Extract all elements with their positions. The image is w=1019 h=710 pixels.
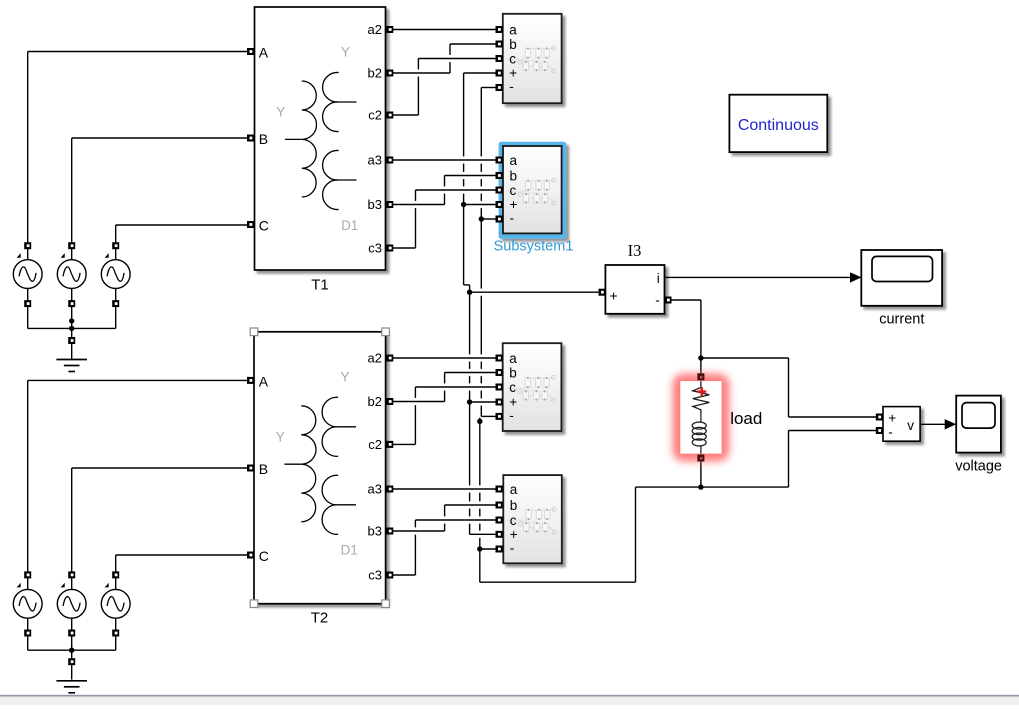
- port source2-top -: [68, 300, 75, 307]
- wire B-phase source2-top vertical: [71, 138, 73, 242]
- port SubC.plus: [496, 399, 503, 406]
- scope voltage: [955, 396, 1002, 475]
- wire voltmeter-plus horizontal: [789, 416, 877, 418]
- svg-text:b: b: [510, 168, 518, 183]
- transformer T2: [254, 332, 386, 604]
- port T2.A: [247, 377, 254, 384]
- wire c2-c lower horizontal: [415, 386, 495, 388]
- source Vs6 (bottom) phase tick: [105, 583, 109, 588]
- port T1.B: [247, 135, 254, 142]
- port T1.a3: [386, 157, 393, 164]
- port load.bottom: [697, 455, 704, 462]
- wire minus-bus to Subsystem1.minus: [481, 218, 495, 220]
- svg-text:Y: Y: [276, 429, 285, 444]
- wire T1.b2 horizontal: [393, 72, 450, 74]
- svg-text:b3: b3: [368, 524, 382, 539]
- port T1.b2: [386, 70, 393, 77]
- port T1.A: [247, 48, 254, 55]
- wire C-phase source3-bot vertical: [115, 555, 117, 572]
- wire plus-bus to Subsystem1.plus: [464, 204, 496, 206]
- wire T1.c3 horizontal: [393, 247, 416, 249]
- svg-text:Subsystem1: Subsystem1: [494, 239, 574, 255]
- wire node-A branch right: [701, 357, 789, 359]
- wire T2.a3 to SubD.a: [393, 488, 496, 490]
- port source1-top +: [24, 242, 31, 249]
- load resistor: [693, 381, 710, 413]
- source Vs5 (bottom) phase tick: [61, 583, 65, 588]
- wire source2-bot stub: [71, 578, 73, 589]
- wire source1-bot stub: [27, 578, 29, 589]
- ground top: [56, 360, 87, 372]
- svg-text:A: A: [259, 45, 269, 61]
- svg-text:current: current: [879, 312, 924, 328]
- wire minus-bus vertical: [480, 88, 482, 417]
- port SubC.c: [496, 384, 503, 391]
- wire minus extension horizontal: [480, 581, 636, 583]
- svg-text:T1: T1: [311, 277, 329, 294]
- wire B-phase source2-bot vertical: [71, 468, 73, 572]
- wire A-phase source1-bot vertical: [27, 380, 29, 571]
- port ground-top: [68, 337, 75, 344]
- wire b3-b lower horizontal2: [445, 504, 496, 506]
- T2 primary winding: [301, 406, 316, 522]
- powergui Continuous block: [729, 95, 827, 152]
- svg-text:Y: Y: [340, 369, 349, 384]
- svg-text:-: -: [509, 79, 514, 94]
- port source2-top +: [68, 242, 75, 249]
- wire source1-bot to neutral: [27, 618, 29, 650]
- port T1.c2: [386, 112, 393, 119]
- wire c3-c vertical (T1): [415, 190, 417, 248]
- junction minus-bus at SubD: [477, 546, 482, 551]
- port SubD.plus: [496, 531, 503, 538]
- load block (highlighted): [673, 374, 762, 461]
- svg-text:b2: b2: [368, 66, 382, 81]
- port T2.b2: [386, 398, 393, 405]
- port SubA.c: [496, 55, 503, 62]
- T2 secondary winding D1: [322, 475, 338, 534]
- port source3-top +: [112, 242, 119, 249]
- svg-text:+: +: [888, 411, 896, 426]
- port source2-bot +: [68, 571, 75, 578]
- svg-text:-: -: [510, 210, 515, 225]
- port SubC.a: [496, 355, 503, 362]
- wire minus-bus to SubA.minus: [481, 87, 495, 89]
- svg-text:b: b: [509, 37, 517, 52]
- svg-text:voltage: voltage: [955, 458, 1002, 474]
- load polarity +: [697, 387, 706, 396]
- svg-text:I3: I3: [628, 241, 642, 260]
- svg-text:i: i: [657, 271, 660, 286]
- wire b3-b upper horizontal: [445, 175, 496, 177]
- port T1.c3: [386, 245, 393, 252]
- port SubC.b: [496, 369, 503, 376]
- wire b2-b upper horizontal: [450, 43, 496, 45]
- status bar: [0, 695, 1019, 697]
- wire crossover gaps: [414, 55, 483, 538]
- svg-text:a2: a2: [368, 22, 382, 37]
- wire T1.a2 to SubA.a: [393, 29, 496, 31]
- wire ground-bot stem: [71, 665, 73, 679]
- transformer T1: [255, 7, 386, 270]
- port Subsystem1.plus: [496, 201, 503, 208]
- wire I3-minus to load vertical: [700, 300, 702, 373]
- wire I3.minus to node-A: [672, 299, 701, 301]
- port voltmeter.minus: [876, 427, 883, 434]
- svg-text:b: b: [509, 365, 517, 380]
- svg-text:-: -: [510, 540, 515, 555]
- port source1-bot +: [24, 571, 31, 578]
- svg-text:B: B: [259, 461, 268, 477]
- junction neutral-top lower: [69, 326, 74, 331]
- wire T1.a3 to Subsystem1.a: [393, 159, 496, 161]
- wire source3-bot stub: [115, 578, 117, 589]
- T1 secondary winding Y: [323, 72, 339, 131]
- wire b3-b vertical (T2): [444, 505, 446, 531]
- svg-text:b: b: [510, 498, 518, 513]
- svg-text:c3: c3: [368, 241, 382, 256]
- ground bottom: [56, 681, 87, 693]
- wire T2.a2 to SubC.a: [393, 357, 496, 359]
- svg-text:-: -: [509, 408, 514, 423]
- port T2.c2: [386, 441, 393, 448]
- wire T2.b2 horizontal: [393, 401, 445, 403]
- svg-text:+: +: [610, 288, 618, 304]
- wire b3-b vertical (T1): [444, 176, 446, 205]
- port source3-top -: [112, 300, 119, 307]
- port I3.minus: [665, 297, 672, 304]
- port source1-bot -: [24, 630, 31, 637]
- wire minus-bus extension vertical: [479, 418, 481, 583]
- wire c2-c vertical (T1): [417, 59, 419, 116]
- wire source2-bot to ground port: [71, 618, 73, 658]
- port SubA.b: [496, 41, 503, 48]
- wire T2.c3 horizontal: [393, 574, 415, 576]
- svg-text:c: c: [509, 380, 516, 395]
- wire C-phase to T1.C: [116, 224, 247, 226]
- AC voltage source Vs6 (bottom): [101, 583, 130, 618]
- junction neutral-top upper: [69, 318, 74, 323]
- AC voltage source Vs4 (bottom): [13, 583, 42, 618]
- source Vs1 (top) phase tick: [17, 253, 21, 258]
- junction node-B: [698, 484, 703, 489]
- port Subsystem1.minus: [496, 216, 503, 223]
- port T1.b3: [386, 201, 393, 208]
- svg-text:b3: b3: [368, 197, 382, 212]
- wire A-phase to T1.A: [28, 51, 247, 53]
- wire voltmeter output: [920, 423, 946, 425]
- port SubD.c: [496, 517, 503, 524]
- svg-text:a: a: [510, 482, 518, 497]
- svg-text:T2: T2: [311, 610, 329, 627]
- svg-text:Y: Y: [276, 105, 285, 120]
- svg-text:a: a: [509, 351, 517, 366]
- wire source3-top stub: [115, 249, 117, 260]
- svg-text:D1: D1: [341, 218, 358, 233]
- wire minus-bus to SubD.minus: [480, 548, 496, 550]
- wire source2-top to ground port: [71, 288, 73, 337]
- svg-text:c2: c2: [368, 108, 382, 123]
- current measurement I3: [605, 241, 664, 314]
- port T2.a3: [386, 486, 393, 493]
- wire T2.c2 horizontal: [393, 443, 415, 445]
- svg-text:C: C: [259, 548, 269, 564]
- svg-text:Y: Y: [341, 45, 350, 60]
- wire source3-top to neutral: [115, 288, 117, 328]
- wire b2-b lower horizontal: [445, 372, 496, 374]
- wire source1-top to neutral: [27, 288, 29, 328]
- svg-text:a2: a2: [368, 351, 382, 366]
- wire load-bottom vertical: [700, 461, 702, 487]
- wire plus-bus to SubA.plus: [464, 72, 496, 74]
- source Vs2 (top) phase tick: [61, 253, 65, 258]
- arrowhead into current scope: [850, 272, 862, 282]
- wire plus-bus to SubC.plus: [470, 401, 496, 403]
- subsystem Subsystem1 (selected): [494, 142, 574, 255]
- svg-text:c: c: [510, 513, 517, 528]
- T2 selection handles: [250, 328, 389, 608]
- svg-text:D1: D1: [341, 543, 358, 558]
- AC voltage source Vs1 (top): [13, 253, 42, 288]
- subsystem SubA: [503, 14, 562, 103]
- wire b2-b vertical (T1): [449, 44, 451, 73]
- wire plus-bus to SubD.plus: [470, 533, 496, 535]
- wire A-phase source1-top vertical: [27, 52, 29, 243]
- AC voltage source Vs3 (top): [101, 253, 130, 288]
- svg-text:c: c: [509, 51, 516, 66]
- wire C-phase to T2.C: [116, 554, 247, 556]
- subsystem SubC: [503, 343, 562, 431]
- port T2.c3: [386, 572, 393, 579]
- port ground-bot: [68, 658, 75, 665]
- wire node-B branch right: [701, 486, 789, 488]
- wire b2-b vertical (T2): [444, 373, 446, 402]
- port source2-bot -: [68, 630, 75, 637]
- port voltmeter.plus: [876, 414, 883, 421]
- junction minus-bus at Subsystem1: [479, 216, 484, 221]
- port T1.a2: [386, 26, 393, 33]
- T1 primary winding: [302, 81, 317, 197]
- voltage measurement block: [883, 407, 920, 442]
- wire source2-top stub: [71, 249, 73, 260]
- svg-text:a3: a3: [368, 482, 382, 497]
- source Vs4 (bottom) phase tick: [17, 583, 21, 588]
- port source1-top -: [24, 300, 31, 307]
- wire plus-bus lower vertical: [469, 285, 471, 534]
- svg-text:a: a: [509, 22, 517, 37]
- wire A-phase to T2.A: [28, 379, 247, 381]
- svg-text:A: A: [259, 374, 269, 390]
- svg-text:c3: c3: [368, 568, 382, 583]
- svg-text:b2: b2: [368, 394, 382, 409]
- port T2.B: [247, 465, 254, 472]
- port SubA.a: [496, 26, 503, 33]
- svg-text:load: load: [730, 409, 762, 428]
- wire source3-bot to neutral: [115, 618, 117, 650]
- T1 secondary winding D1: [323, 150, 339, 209]
- port T2.a2: [386, 355, 393, 362]
- svg-text:Continuous: Continuous: [738, 117, 819, 134]
- port source3-bot +: [112, 571, 119, 578]
- port SubD.b: [496, 502, 503, 509]
- wire C-phase source3-top vertical: [115, 225, 117, 242]
- port T2.b3: [386, 528, 393, 535]
- junction plus-bus at SubC: [467, 399, 472, 404]
- svg-text:-: -: [655, 293, 660, 308]
- wire node-B to voltmeter-minus vertical: [788, 431, 790, 488]
- wire source1-top stub: [27, 249, 29, 260]
- wire voltmeter-minus horizontal: [789, 430, 877, 432]
- wire node-B return vertical: [635, 487, 637, 582]
- port SubD.minus: [496, 546, 503, 553]
- wire c3-c upper horizontal: [416, 189, 496, 191]
- port source3-bot -: [112, 630, 119, 637]
- svg-text:a3: a3: [368, 153, 382, 168]
- T2 secondary winding Y: [322, 397, 338, 456]
- svg-text:C: C: [259, 218, 269, 234]
- wire plus-bus to I3.plus: [470, 291, 599, 293]
- wire T2.b3 horizontal: [393, 530, 445, 532]
- wire minus-bus to SubC.minus: [481, 415, 495, 417]
- svg-text:c2: c2: [368, 437, 382, 452]
- wire c3-c vertical (T2): [414, 520, 416, 575]
- junction node-A: [698, 355, 703, 360]
- AC voltage source Vs5 (bottom): [57, 583, 86, 618]
- wire B-phase to T2.B: [72, 467, 247, 469]
- junction minus-bus below SubC: [477, 419, 482, 424]
- port Subsystem1.a: [496, 157, 503, 164]
- wire I3.i to current scope: [665, 276, 852, 278]
- port I3.plus: [599, 289, 606, 296]
- junction plus-bus at Subsystem1: [461, 202, 466, 207]
- wire ground-top stem: [71, 344, 73, 359]
- port load.top: [697, 373, 704, 380]
- wire plus-bus jog: [464, 284, 470, 286]
- load inductor: [692, 413, 706, 454]
- port T1.C: [247, 221, 254, 228]
- svg-text:-: -: [888, 425, 893, 440]
- wire c3-c lower horizontal2: [415, 519, 495, 521]
- svg-text:c: c: [510, 183, 517, 198]
- port SubA.minus: [496, 84, 503, 91]
- AC voltage source Vs2 (top): [57, 253, 86, 288]
- port SubA.plus: [496, 70, 503, 77]
- port Subsystem1.c: [496, 187, 503, 194]
- junction neutral-bot: [69, 648, 74, 653]
- wire plus-bus upper vertical: [463, 73, 465, 285]
- wire T1.b3 horizontal: [393, 204, 445, 206]
- wire neutral-top horizontal: [28, 327, 116, 329]
- wire c2-c upper horizontal: [418, 58, 495, 60]
- junction plus-bus at I3: [467, 290, 472, 295]
- port T2.C: [247, 552, 254, 559]
- svg-text:B: B: [259, 131, 268, 147]
- arrowhead into voltage scope: [945, 419, 957, 429]
- wire c2-c vertical (T2): [414, 387, 416, 444]
- port SubD.a: [496, 486, 503, 493]
- source Vs3 (top) phase tick: [105, 253, 109, 258]
- wire node-A to voltmeter-plus vertical: [788, 358, 790, 417]
- svg-text:a: a: [510, 153, 518, 168]
- wire B-phase to T1.B: [72, 137, 247, 139]
- port SubC.minus: [496, 413, 503, 420]
- port Subsystem1.b: [496, 172, 503, 179]
- wire node-B branch left: [636, 486, 701, 488]
- scope current: [861, 250, 942, 328]
- wire neutral-bot horizontal: [28, 649, 116, 651]
- subsystem SubD: [503, 475, 562, 563]
- svg-text:v: v: [907, 418, 914, 433]
- wire T1.c2 horizontal: [393, 114, 418, 116]
